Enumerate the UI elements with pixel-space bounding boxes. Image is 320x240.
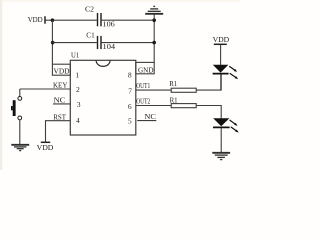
pin 2 KEY wire [20,88,71,90]
capacitor C1 [86,31,115,51]
junction dot C1 right [152,41,156,45]
earth ground bottom-right [212,153,230,160]
wire VDD port to C2 [45,19,97,21]
svg-text:GND: GND [138,67,154,75]
svg-text:106: 106 [103,20,116,29]
wire rail to C1 [53,42,97,44]
pin 5 NC stub [137,120,156,122]
junction dot at VDD rail tap [51,18,55,22]
svg-text:8: 8 [128,70,132,79]
power port VDD top-right [213,35,230,65]
svg-text:RST: RST [53,113,66,121]
pin 6 OUT2 wire [136,105,171,107]
LED D1 [213,65,239,90]
wire left VDD rail down [51,20,53,64]
svg-text:104: 104 [103,42,116,51]
capacitor C2 [85,5,115,29]
svg-text:OUT2: OUT2 [136,98,150,106]
earth ground top-right [145,6,163,20]
pin 4 RST wire [46,121,71,142]
svg-text:4: 4 [76,116,80,125]
pushbutton switch S1 [11,89,22,144]
svg-text:KEY: KEY [53,82,68,90]
pin 8 GND boxed label [136,62,154,74]
svg-text:3: 3 [77,100,81,109]
wire C1 to right rail [102,42,155,44]
svg-text:1: 1 [75,70,79,79]
svg-text:OUT1: OUT1 [136,82,150,90]
svg-text:6: 6 [128,102,132,111]
resistor R1 (top) [169,80,196,92]
pin 3 NC stub [53,103,70,105]
svg-text:VDD: VDD [54,68,70,76]
svg-text:VDD: VDD [28,15,44,24]
svg-text:5: 5 [128,117,132,126]
svg-text:C1: C1 [86,31,95,40]
pin 7 OUT1 wire [136,89,171,91]
svg-text:U1: U1 [71,50,79,59]
svg-text:NC: NC [144,113,156,121]
wire R1 bottom to LED2 [196,106,221,119]
IC U1 body [70,50,136,135]
wire C2 to right rail [102,19,155,21]
svg-text:VDD: VDD [37,143,54,152]
wire right GND rail [153,20,155,62]
wire R1 top to LED branch [196,74,221,90]
power port VDD bottom (RST pull-up) [37,142,54,152]
junction dot C2 right [152,18,156,22]
left edge strip [0,0,2,170]
svg-text:2: 2 [76,85,80,94]
svg-text:C2: C2 [85,5,94,14]
svg-text:R1: R1 [169,80,177,88]
pin 1 VDD boxed label [52,64,70,75]
LED D2 [213,118,239,152]
junction dot at C1 tap left [51,41,55,45]
svg-text:VDD: VDD [213,35,230,44]
earth ground bottom-left [11,145,29,151]
resistor R1 (bottom) [170,96,197,107]
svg-text:NC: NC [54,96,66,104]
svg-text:7: 7 [128,86,132,95]
power port VDD top-left [28,15,45,24]
